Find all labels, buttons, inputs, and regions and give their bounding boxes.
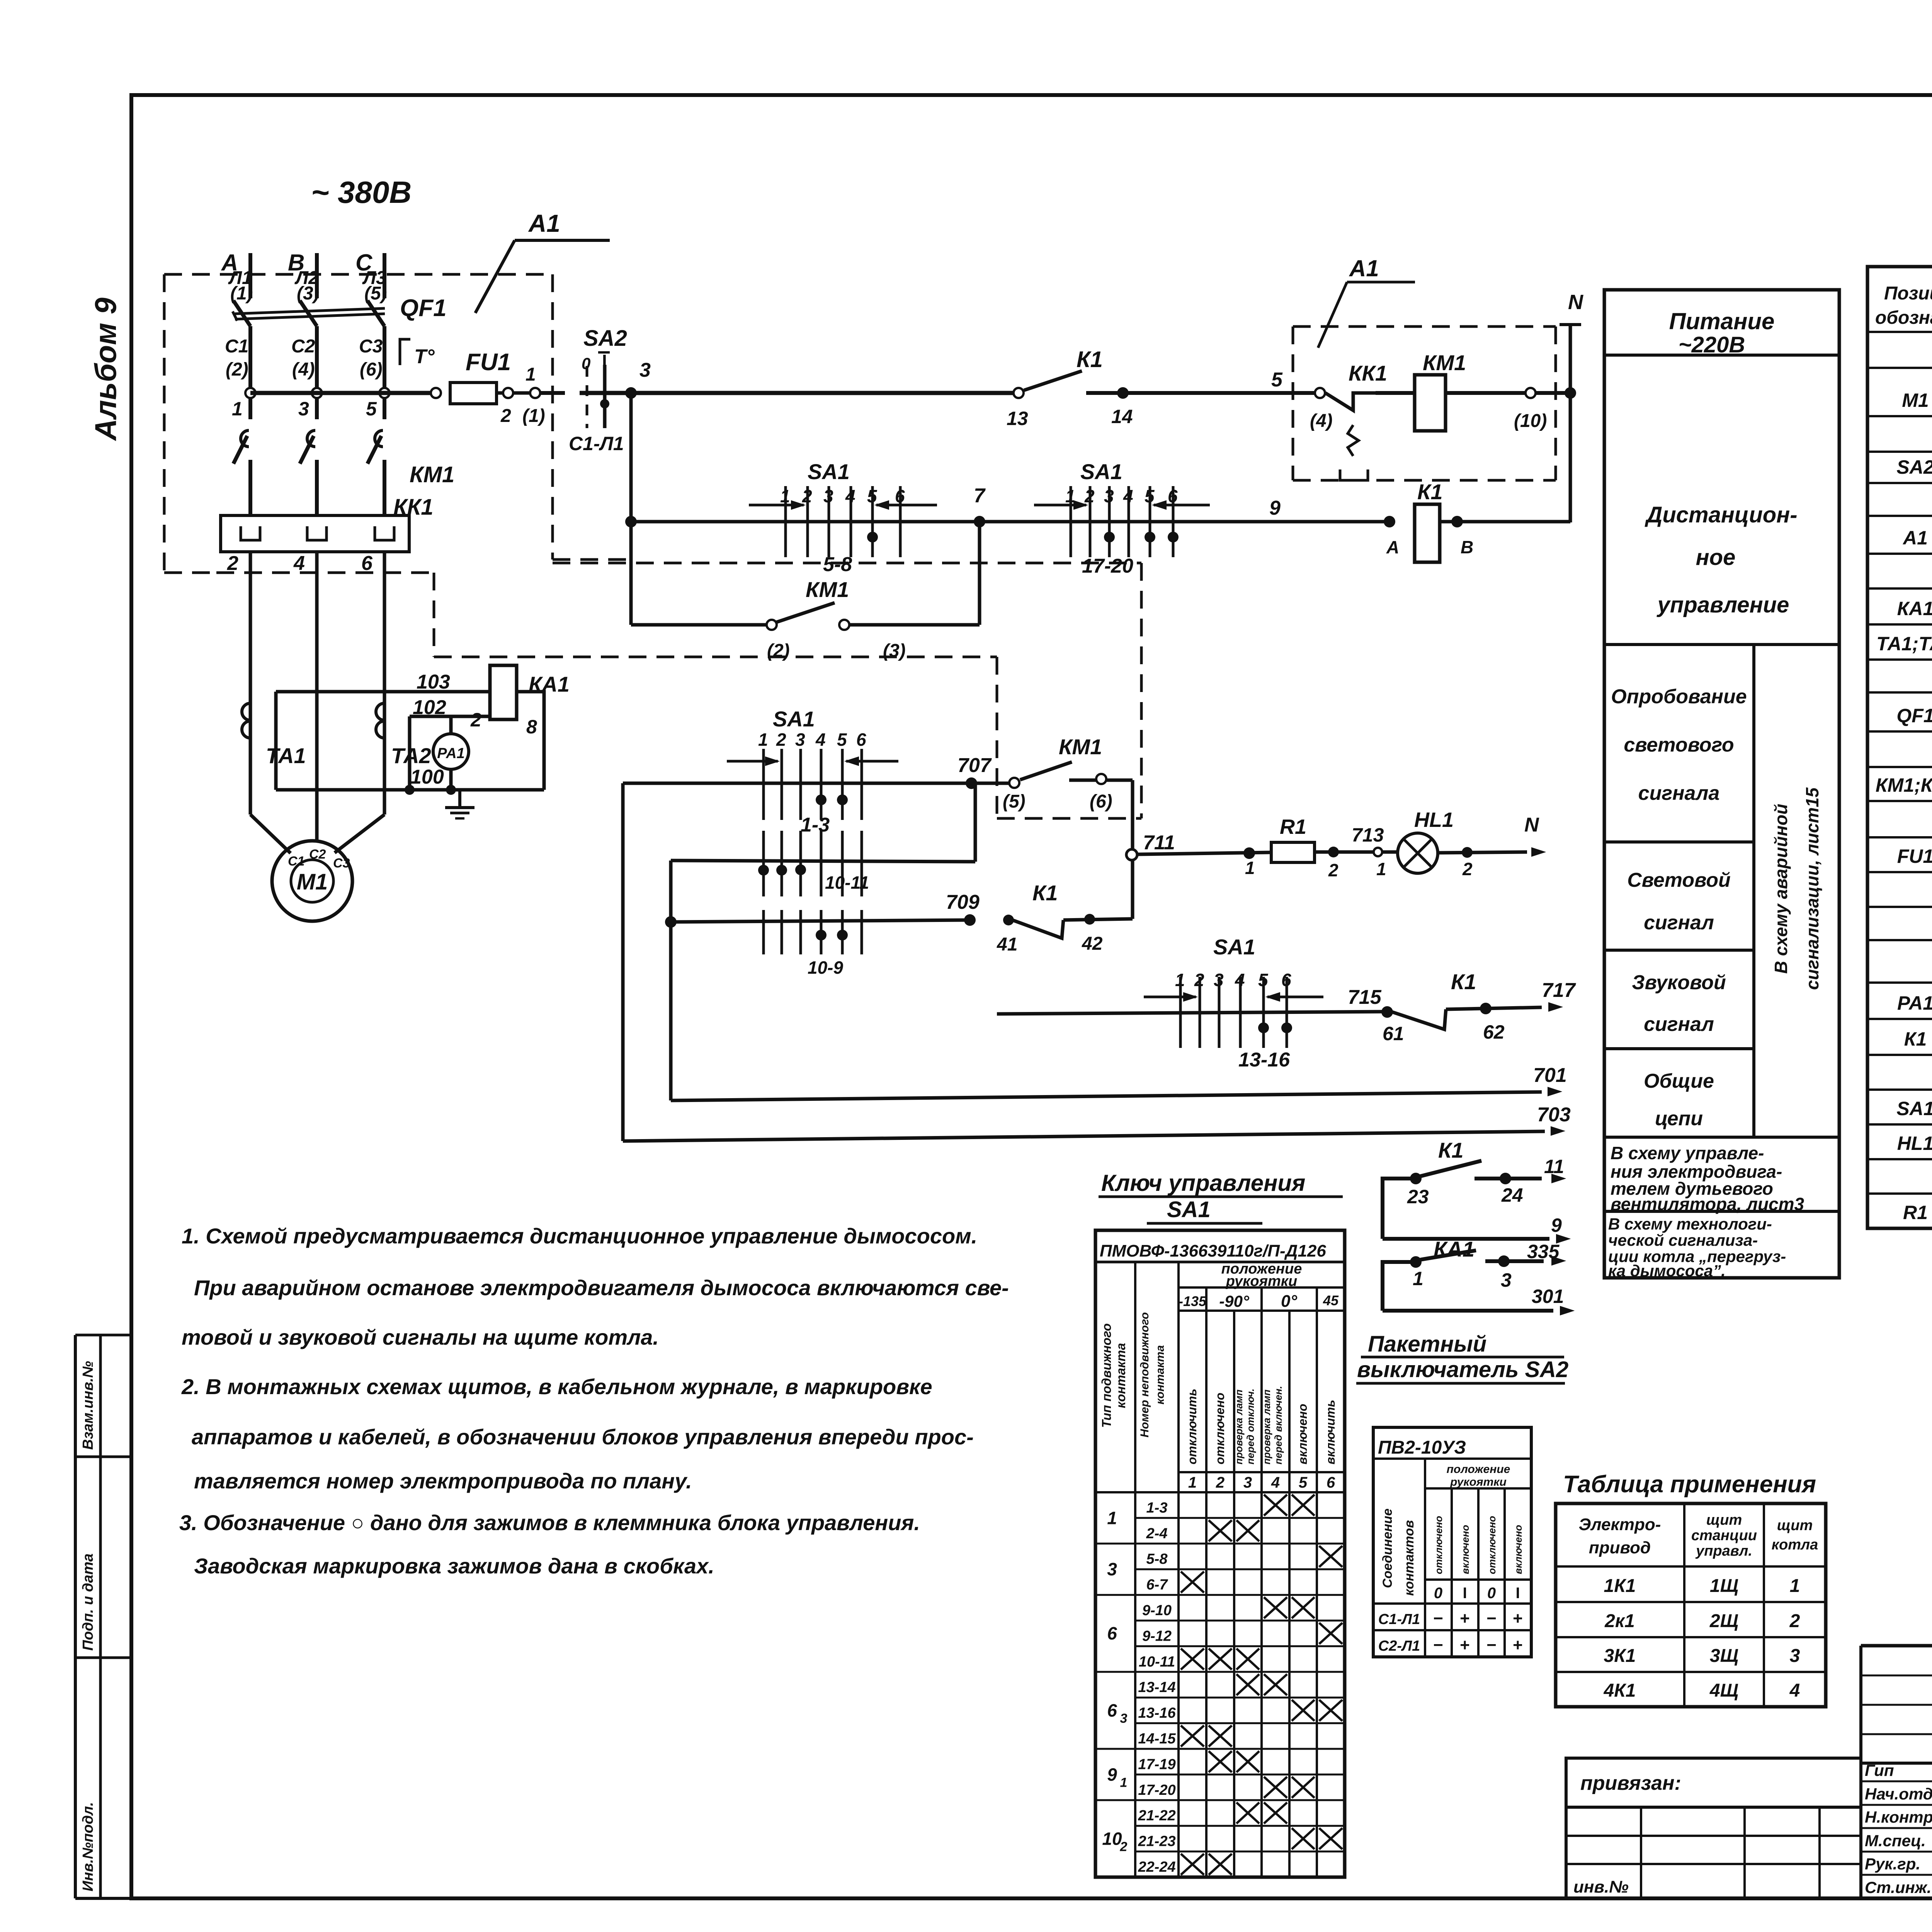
relay contact K1 41-42 NC (997, 881, 1133, 955)
circuit breaker QF1 pole С (359, 301, 384, 419)
svg-text:щит: щит (1777, 1517, 1813, 1534)
svg-text:включено: включено (1459, 1525, 1471, 1574)
svg-text:3: 3 (795, 730, 805, 750)
svg-text:709: 709 (946, 891, 980, 913)
current transformer TA1 (242, 692, 306, 790)
svg-text:отключить: отключить (1185, 1389, 1199, 1464)
packet switch SA2 table title (1356, 1332, 1568, 1383)
svg-text:301: 301 (1532, 1286, 1564, 1307)
svg-text:перед отключ.: перед отключ. (1245, 1388, 1256, 1464)
svg-text:707: 707 (957, 754, 992, 777)
svg-text:717: 717 (1542, 979, 1576, 1002)
svg-text:6: 6 (856, 730, 866, 750)
svg-text:SА1: SА1 (1167, 1197, 1211, 1222)
relay contact K1 23-24 (1383, 1138, 1565, 1239)
wire 100 common (276, 766, 544, 795)
svg-text:Взам.инв.№: Взам.инв.№ (80, 1361, 96, 1450)
relay contact K1 61-62 NC (1383, 969, 1576, 1044)
svg-text:7: 7 (974, 485, 986, 507)
svg-text:привод: привод (1589, 1538, 1651, 1557)
node 6 under KK1 (361, 552, 384, 815)
svg-text:1-3: 1-3 (1146, 1500, 1168, 1516)
A1 control block dashed outline (164, 274, 626, 573)
title block signatures (1861, 1761, 1932, 1897)
svg-text:FU1: FU1 (1897, 845, 1932, 867)
wire from (6) down to 711 (1131, 780, 1134, 919)
svg-text:N: N (1568, 291, 1583, 314)
svg-text:5-8: 5-8 (1146, 1551, 1168, 1567)
svg-text:перед включен.: перед включен. (1272, 1386, 1284, 1464)
svg-text:2: 2 (500, 406, 511, 426)
contactor KM1 main contact С (367, 430, 384, 515)
svg-text:станции: станции (1691, 1527, 1757, 1544)
svg-text:6: 6 (1327, 1474, 1335, 1491)
svg-text:1: 1 (758, 730, 768, 750)
voltage label ~380V (311, 175, 412, 209)
svg-text:~220В: ~220В (1679, 332, 1745, 357)
svg-text:ка дымососа”.: ка дымососа”. (1608, 1262, 1726, 1280)
motor feed wires (250, 815, 384, 853)
svg-text:10-11: 10-11 (1139, 1654, 1175, 1670)
svg-text:SA1: SA1 (1213, 935, 1255, 959)
svg-text:1: 1 (232, 398, 243, 420)
contactor KM1 aux contact (2)(3) (631, 522, 980, 661)
svg-text:2: 2 (776, 730, 786, 750)
wire 9 to fan scheme (1383, 1214, 1570, 1243)
svg-text:С3: С3 (359, 336, 383, 357)
svg-text:-90°: -90° (1219, 1292, 1250, 1310)
svg-text:22-24: 22-24 (1138, 1859, 1175, 1875)
svg-text:Гип: Гип (1865, 1761, 1894, 1779)
svg-text:5: 5 (1271, 369, 1283, 391)
svg-text:6: 6 (1107, 1623, 1117, 1643)
wire 103 to relay KA1 (276, 671, 490, 693)
svg-text:С1-Л1: С1-Л1 (1378, 1611, 1420, 1628)
svg-text:Альбом 9: Альбом 9 (88, 298, 122, 441)
svg-text:-135: -135 (1179, 1293, 1207, 1309)
svg-text:тавляется номер электропривода: тавляется номер электропривода по плану. (194, 1469, 692, 1493)
bus node 3 phase В (298, 388, 322, 420)
svg-text:3: 3 (1107, 1559, 1117, 1579)
svg-text:проверка ламп: проверка ламп (1261, 1389, 1272, 1464)
svg-text:2: 2 (1789, 1611, 1800, 1631)
svg-text:715: 715 (1348, 986, 1382, 1009)
svg-text:КМ1: КМ1 (1423, 350, 1466, 375)
packet switch SA2 table (1373, 1427, 1531, 1657)
svg-text:В схему управле-: В схему управле- (1611, 1143, 1764, 1163)
svg-text:1: 1 (526, 364, 536, 385)
svg-text:контакта: контакта (1114, 1343, 1128, 1408)
svg-text:41: 41 (997, 934, 1017, 955)
motor M1 (272, 841, 352, 921)
svg-text:сигнала: сигнала (1638, 782, 1720, 804)
svg-text:контактов: контактов (1402, 1520, 1417, 1596)
svg-text:Ст.инж.: Ст.инж. (1865, 1878, 1931, 1896)
svg-text:Позиц.: Позиц. (1884, 283, 1932, 304)
node 4 under KK1 (293, 552, 317, 841)
svg-text:товой и звуковой сигналы на щи: товой и звуковой сигналы на щите котла. (182, 1325, 659, 1349)
svg-text:ное: ное (1696, 545, 1736, 570)
svg-text:Т°: Т° (414, 345, 435, 368)
svg-text:отключено: отключено (1213, 1393, 1227, 1464)
svg-text:ПМОВФ-136639110г/П-Д126: ПМОВФ-136639110г/П-Д126 (1100, 1242, 1326, 1260)
breaker QF1 trip bar (233, 308, 385, 321)
svg-text:13: 13 (1007, 408, 1028, 429)
svg-text:Опробование: Опробование (1611, 685, 1747, 708)
svg-text:21-22: 21-22 (1138, 1808, 1175, 1824)
svg-text:~ 380В: ~ 380В (311, 175, 412, 209)
svg-text:РА1: РА1 (1897, 992, 1932, 1014)
privyazan block (1566, 1758, 1861, 1898)
wire 711 row with resistor R1 and lamp HL1 (1137, 847, 1271, 878)
svg-text:(5): (5) (1003, 791, 1026, 812)
svg-text:10: 10 (1102, 1828, 1122, 1849)
svg-text:Общие: Общие (1644, 1070, 1714, 1092)
svg-text:1К1: 1К1 (1604, 1576, 1636, 1596)
riser wire left 2 (665, 861, 677, 1100)
svg-text:включено: включено (1296, 1404, 1310, 1464)
svg-text:SA2: SA2 (583, 326, 627, 351)
ground symbol (445, 790, 474, 818)
svg-text:Ключ управления: Ключ управления (1101, 1170, 1305, 1196)
svg-text:Пакетный: Пакетный (1368, 1332, 1486, 1357)
svg-text:R1: R1 (1280, 815, 1306, 838)
application table title (1563, 1471, 1816, 1498)
svg-text:N: N (1524, 814, 1539, 836)
svg-text:5: 5 (1299, 1474, 1308, 1491)
svg-text:С2: С2 (309, 847, 326, 862)
svg-text:щит: щит (1706, 1512, 1742, 1528)
svg-text:Тип подвижного: Тип подвижного (1099, 1323, 1114, 1428)
thermal element KK1 phase В (307, 526, 327, 540)
svg-text:I: I (1463, 1585, 1467, 1602)
svg-text:1: 1 (1120, 1775, 1128, 1790)
packet switch SA2 (569, 326, 627, 454)
svg-text:13-14: 13-14 (1138, 1679, 1175, 1696)
svg-text:3: 3 (1243, 1474, 1252, 1491)
bus node 5 phase С (366, 388, 389, 420)
A1 starter block dashed box (1293, 327, 1556, 480)
wire 703 common (623, 1104, 1571, 1141)
svg-text:проверка ламп: проверка ламп (1233, 1389, 1245, 1464)
svg-text:1: 1 (1376, 859, 1386, 879)
svg-text:С2: С2 (291, 336, 315, 357)
svg-text:Световой: Световой (1627, 869, 1731, 891)
node 7 (974, 485, 986, 527)
svg-text:QF1: QF1 (400, 295, 447, 321)
svg-text:2Щ: 2Щ (1709, 1611, 1738, 1631)
svg-text:4Щ: 4Щ (1709, 1680, 1738, 1701)
terminal 711 (1126, 832, 1175, 860)
svg-text:(3): (3) (883, 641, 906, 661)
svg-text:2-4: 2-4 (1146, 1526, 1168, 1542)
svg-text:3. Обозначение ○ дано для заж: 3. Обозначение ○ дано для зажимов в клем… (179, 1510, 920, 1535)
svg-text:11: 11 (1544, 1156, 1564, 1177)
block A1 callout top-left (475, 209, 610, 313)
svg-text:В схему технологи-: В схему технологи- (1608, 1215, 1772, 1233)
svg-text:сигнал: сигнал (1644, 1013, 1714, 1036)
svg-text:21-23: 21-23 (1138, 1833, 1175, 1850)
wire from node 3 down (625, 393, 637, 625)
svg-text:6: 6 (361, 552, 373, 575)
svg-text:рукоятки: рукоятки (1450, 1476, 1507, 1488)
svg-text:Заводская маркировка зажимов д: Заводская маркировка зажимов дана в скоб… (194, 1554, 714, 1578)
svg-text:1: 1 (1107, 1508, 1117, 1528)
svg-text:Подп. и дата: Подп. и дата (80, 1553, 96, 1651)
svg-text:КМ1: КМ1 (410, 462, 454, 487)
svg-text:привязан:: привязан: (1580, 1772, 1681, 1794)
ammeter PA1 (433, 716, 469, 790)
svg-text:К1: К1 (1417, 480, 1443, 504)
neutral N (1560, 291, 1583, 522)
svg-text:(6): (6) (1090, 791, 1112, 812)
svg-text:5-8: 5-8 (823, 553, 852, 576)
svg-text:(6): (6) (360, 359, 383, 380)
svg-text:13-16: 13-16 (1238, 1049, 1290, 1071)
fuse FU1 (431, 349, 565, 426)
phase С input line (355, 250, 387, 304)
current relay KA1 coil (470, 665, 570, 738)
svg-text:2к1: 2к1 (1604, 1611, 1635, 1631)
svg-text:К1: К1 (1438, 1138, 1464, 1162)
node 2 under KK1 (227, 552, 250, 815)
svg-text:14-15: 14-15 (1138, 1731, 1176, 1747)
svg-text:К1: К1 (1451, 969, 1476, 994)
svg-text:17-20: 17-20 (1082, 555, 1133, 577)
svg-text:9: 9 (1107, 1764, 1117, 1784)
svg-text:1: 1 (1188, 1474, 1197, 1491)
node 5 label (1271, 369, 1283, 391)
relay coil K1 (1384, 480, 1570, 562)
signal lamp HL1 (1398, 808, 1454, 873)
svg-text:В: В (1461, 537, 1473, 557)
svg-text:103: 103 (417, 671, 450, 693)
wire 713 (1315, 824, 1398, 880)
contactor KM1 aux contact (5)(6) (1003, 735, 1133, 812)
svg-text:335: 335 (1527, 1241, 1560, 1262)
svg-text:4: 4 (1789, 1680, 1800, 1701)
notes text (179, 1224, 1009, 1578)
svg-text:R1: R1 (1903, 1202, 1928, 1223)
wire from KA1 pin 8 (517, 692, 544, 790)
svg-text:сигнал: сигнал (1644, 912, 1714, 934)
cam switch SA1 section 13-16 (1144, 935, 1323, 1071)
wire 709 row (671, 891, 980, 978)
svg-text:3Щ: 3Щ (1710, 1646, 1738, 1666)
svg-text:Инв.№подл.: Инв.№подл. (80, 1802, 96, 1891)
svg-text:−: − (1486, 1609, 1497, 1628)
svg-text:(4): (4) (292, 359, 315, 380)
svg-text:9-12: 9-12 (1142, 1628, 1172, 1644)
svg-text:котла: котла (1772, 1537, 1818, 1553)
svg-text:9-10: 9-10 (1142, 1602, 1172, 1619)
svg-text:17-20: 17-20 (1138, 1782, 1175, 1798)
svg-text:23: 23 (1407, 1186, 1429, 1207)
svg-text:Электро-: Электро- (1579, 1515, 1661, 1534)
svg-text:13-16: 13-16 (1138, 1705, 1176, 1721)
svg-text:Питание: Питание (1669, 308, 1775, 334)
circuit breaker QF1 pole В (291, 301, 317, 419)
svg-text:НL1: НL1 (1897, 1133, 1932, 1154)
svg-text:К1: К1 (1904, 1028, 1927, 1050)
svg-text:3К1: 3К1 (1604, 1646, 1636, 1666)
relay contact K1 13-14 on bus (1007, 347, 1315, 429)
svg-text:1. Схемой предусматривается ди: 1. Схемой предусматривается дистанционно… (182, 1224, 977, 1248)
svg-text:Дистанцион-: Дистанцион- (1644, 502, 1797, 527)
svg-text:(2): (2) (767, 641, 790, 661)
contactor KM1 main contact А (233, 430, 250, 515)
svg-text:Номер неподвижного: Номер неподвижного (1138, 1312, 1151, 1437)
svg-text:−: − (1433, 1636, 1443, 1655)
svg-text:светового: светового (1624, 734, 1734, 756)
svg-text:711: 711 (1143, 832, 1175, 854)
svg-text:контакта: контакта (1154, 1345, 1167, 1405)
svg-text:КК1: КК1 (393, 495, 434, 520)
svg-text:2: 2 (470, 709, 481, 731)
svg-text:обознач.: обознач. (1875, 308, 1932, 328)
contactor KM1 main contact В (300, 430, 317, 515)
svg-text:SA1: SA1 (808, 459, 850, 484)
svg-text:1-3: 1-3 (801, 814, 830, 836)
svg-text:SA1: SA1 (773, 707, 815, 731)
wire bus after SA2 (580, 391, 1013, 395)
svg-text:3: 3 (298, 398, 309, 420)
relay contact KA1 1-3 (1383, 1237, 1565, 1311)
node 3 (625, 359, 651, 399)
svg-text:2: 2 (227, 552, 238, 575)
svg-text:3: 3 (1501, 1269, 1512, 1291)
wire 301 (1383, 1286, 1573, 1315)
contactor coil KM1 (1376, 350, 1526, 431)
svg-text:включено: включено (1512, 1525, 1524, 1574)
svg-text:Таблица применения: Таблица применения (1563, 1471, 1816, 1498)
svg-text:SA1: SA1 (1080, 459, 1122, 484)
svg-text:713: 713 (1352, 824, 1384, 846)
svg-text:5: 5 (366, 398, 377, 420)
svg-text:2. В монтажных схемах щитов, в: 2. В монтажных схемах щитов, в кабельном… (181, 1374, 932, 1399)
svg-text:9: 9 (1551, 1214, 1562, 1236)
svg-text:А1: А1 (1902, 527, 1928, 549)
svg-text:М1: М1 (297, 869, 328, 895)
wire label 9 (1269, 497, 1281, 519)
svg-text:1: 1 (1413, 1268, 1423, 1289)
svg-text:24: 24 (1501, 1184, 1523, 1206)
circuit destination column (1604, 290, 1839, 1280)
svg-text:9: 9 (1269, 497, 1281, 519)
svg-text:КМ1: КМ1 (806, 577, 849, 602)
breaker QF1 label (400, 295, 447, 321)
svg-text:102: 102 (413, 696, 446, 719)
svg-text:(1): (1) (522, 406, 545, 426)
svg-text:выключатель SА2: выключатель SА2 (1357, 1357, 1568, 1382)
svg-text:Соединение: Соединение (1380, 1509, 1395, 1588)
svg-text:4: 4 (1271, 1474, 1280, 1491)
thermal release symbol (400, 339, 435, 368)
svg-text:QF1: QF1 (1896, 705, 1932, 726)
svg-text:Звуковой: Звуковой (1632, 971, 1726, 994)
wire 102 (410, 696, 490, 719)
svg-text:100: 100 (410, 766, 444, 788)
svg-text:1Щ: 1Щ (1710, 1576, 1738, 1596)
svg-text:4: 4 (293, 552, 305, 575)
svg-text:2: 2 (1120, 1839, 1128, 1854)
svg-text:2: 2 (1462, 859, 1473, 879)
terminal (10) (1514, 388, 1570, 431)
wire row 7 (631, 520, 1389, 524)
svg-text:управл.: управл. (1695, 1543, 1752, 1559)
svg-text:+: + (1460, 1636, 1470, 1655)
svg-text:КА1: КА1 (1897, 598, 1932, 619)
svg-text:вентилятора, лист3: вентилятора, лист3 (1611, 1194, 1804, 1214)
phase В input line (288, 250, 320, 304)
svg-text:М1: М1 (1902, 389, 1929, 411)
svg-text:−: − (1486, 1636, 1497, 1655)
svg-text:42: 42 (1082, 934, 1103, 954)
svg-text:6: 6 (1107, 1700, 1117, 1720)
svg-text:А1: А1 (1349, 255, 1379, 281)
node 707 (957, 754, 992, 789)
svg-text:С2-Л1: С2-Л1 (1378, 1638, 1420, 1654)
svg-text:+: + (1513, 1636, 1523, 1655)
wire to N arrow (1438, 814, 1545, 879)
bus wire 380V (250, 391, 436, 395)
svg-text:+: + (1460, 1609, 1470, 1628)
svg-text:С1: С1 (288, 854, 304, 869)
svg-text:включить: включить (1323, 1400, 1337, 1464)
svg-text:ТА2: ТА2 (391, 743, 431, 768)
svg-text:ПВ2-10УЗ: ПВ2-10УЗ (1378, 1437, 1466, 1458)
svg-text:4: 4 (815, 730, 826, 750)
svg-text:инв.№: инв.№ (1573, 1878, 1629, 1896)
svg-text:6-7: 6-7 (1146, 1577, 1168, 1593)
phase А input line (221, 250, 253, 304)
svg-text:3: 3 (639, 359, 651, 381)
svg-text:4К1: 4К1 (1604, 1680, 1636, 1701)
svg-text:Рук.гр.: Рук.гр. (1865, 1855, 1920, 1873)
svg-text:Нач.отд.: Нач.отд. (1865, 1785, 1932, 1803)
svg-text:2: 2 (1216, 1474, 1225, 1491)
svg-text:17-19: 17-19 (1138, 1756, 1175, 1772)
svg-text:аппаратов и кабелей, в обознач: аппаратов и кабелей, в обозначении блоко… (192, 1425, 974, 1449)
bus node 1 phase А (232, 388, 255, 420)
svg-text:положение: положение (1447, 1463, 1510, 1476)
title block signature grid upper (1861, 1646, 1932, 1898)
svg-text:управление: управление (1656, 592, 1789, 617)
resistor R1 (1271, 815, 1315, 862)
circuit breaker QF1 pole А (225, 301, 250, 419)
svg-text:I: I (1515, 1585, 1520, 1602)
svg-text:0°: 0° (1281, 1292, 1297, 1311)
parts list table (1867, 267, 1932, 1228)
svg-text:отключено: отключено (1486, 1516, 1498, 1574)
svg-text:1: 1 (1245, 858, 1255, 878)
svg-text:В схему аварийной: В схему аварийной (1771, 804, 1791, 974)
svg-text:РА1: РА1 (437, 745, 465, 762)
svg-text:SA1: SA1 (1896, 1098, 1932, 1119)
svg-text:К1: К1 (1032, 881, 1058, 905)
wire 701 common (671, 1064, 1567, 1100)
cam switch SA1 section 5-8 (749, 459, 937, 576)
left margin stamp column (75, 1335, 131, 1898)
svg-text:14: 14 (1111, 406, 1133, 427)
thermal element KK1 phase А (241, 526, 260, 540)
svg-text:Н.контр.: Н.контр. (1865, 1808, 1932, 1826)
album label Альбом 9 (88, 298, 122, 441)
riser wire left 1 (621, 783, 625, 1141)
svg-text:(10): (10) (1514, 411, 1547, 431)
svg-text:5: 5 (837, 730, 847, 750)
svg-text:3: 3 (1790, 1646, 1800, 1666)
